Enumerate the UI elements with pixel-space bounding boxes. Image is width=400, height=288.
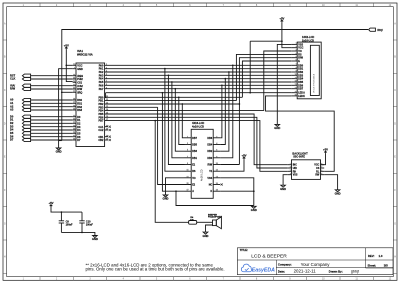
wire LCD VSS to ground bbox=[277, 44, 291, 124]
svg-text:2: 2 bbox=[216, 136, 217, 138]
svg-text:IRQ/: IRQ/ bbox=[377, 28, 383, 32]
svg-text:2021-12-11: 2021-12-11 bbox=[294, 269, 317, 274]
wire PB0 to 4x16 pin3 DB5 bbox=[179, 97, 185, 144]
svg-text:100nF: 100nF bbox=[66, 224, 73, 227]
svg-text:R/W: R/W bbox=[10, 87, 16, 91]
connector LCD2 4X16-LCD body bbox=[191, 129, 213, 198]
svg-text:Sheet:: Sheet: bbox=[368, 264, 377, 268]
svg-text:VSS: VSS bbox=[207, 177, 212, 180]
svg-text:CB2: CB2 bbox=[98, 139, 104, 142]
wire net PB6 to backlight U/D bbox=[105, 117, 288, 168]
wire net PB1 row bbox=[105, 100, 237, 102]
IC U2 BACKLIGHT body bbox=[292, 160, 321, 180]
wire 4x16 pin13 VO to ground bbox=[166, 178, 185, 195]
svg-text:H: H bbox=[4, 256, 6, 259]
svg-text:PA7: PA7 bbox=[99, 88, 104, 91]
svg-text:NC: NC bbox=[209, 184, 213, 187]
wire net D4 to VIA bbox=[31, 129, 73, 131]
wire LCD E staircase to PB0 bbox=[242, 61, 291, 97]
svg-text:jjbbjt: jjbbjt bbox=[350, 269, 360, 274]
svg-text:W65C22 VIA: W65C22 VIA bbox=[77, 52, 93, 56]
svg-text:+5V: +5V bbox=[323, 148, 328, 152]
junction VSS K bbox=[253, 190, 255, 192]
connector LCD2 pin labels and numbers bbox=[186, 136, 218, 193]
svg-text:22: 22 bbox=[73, 88, 75, 90]
IC VIA1 W65C22 VIA body bbox=[76, 63, 105, 147]
wire net PA1 row bbox=[105, 68, 292, 70]
IC U2 pin stubs bbox=[288, 165, 324, 175]
wire PA7 to 4x16 pin5 DB3 bbox=[175, 89, 184, 152]
wire net A2 to VIA bbox=[31, 106, 73, 108]
svg-text:15: 15 bbox=[186, 183, 188, 185]
title block outline bbox=[237, 248, 393, 275]
svg-text:7: 7 bbox=[321, 167, 322, 169]
connector LCD2 pin16 NC no-connect cross bbox=[221, 183, 223, 185]
svg-text:D5: D5 bbox=[10, 131, 14, 135]
svg-text:17: 17 bbox=[186, 190, 188, 192]
svg-text:D: D bbox=[4, 122, 6, 125]
svg-text:GND: GND bbox=[56, 150, 62, 154]
svg-text:DB5: DB5 bbox=[192, 144, 197, 147]
svg-text:8: 8 bbox=[296, 67, 297, 69]
svg-text:7: 7 bbox=[187, 156, 188, 158]
svg-text:1: 1 bbox=[187, 136, 188, 138]
junction PA0 tap bbox=[232, 64, 234, 66]
svg-text:DB1: DB1 bbox=[192, 157, 197, 160]
svg-text:14: 14 bbox=[295, 86, 297, 89]
junction PA2 tap bbox=[228, 71, 230, 73]
ground below LCD VSS bbox=[274, 124, 280, 130]
wire 4x16 pin2 DB6 to PA6 bbox=[220, 85, 222, 138]
svg-text:100nF: 100nF bbox=[86, 224, 93, 227]
EasyEDA logo cloud bbox=[241, 264, 251, 272]
svg-text:A1: A1 bbox=[10, 101, 14, 105]
wire 4x16 pin6 DB2 to PA2 bbox=[220, 72, 229, 151]
wire net PA2 row bbox=[105, 71, 292, 73]
svg-text:36: 36 bbox=[73, 105, 75, 107]
svg-text:12: 12 bbox=[216, 170, 218, 172]
svg-text:Date:: Date: bbox=[278, 269, 285, 273]
svg-text:2x16-LCD: 2x16-LCD bbox=[302, 38, 314, 42]
wire backlight VSS to ground bbox=[283, 175, 288, 185]
svg-text:10: 10 bbox=[295, 74, 297, 76]
wire LCD RS staircase to PB1 bbox=[236, 54, 291, 100]
net port D6 bbox=[10, 134, 31, 138]
wire net PB3 row bbox=[105, 106, 158, 108]
svg-text:13: 13 bbox=[295, 84, 297, 86]
svg-text:CA2: CA2 bbox=[98, 129, 104, 132]
svg-text:G: G bbox=[4, 222, 6, 225]
net port D0 bbox=[10, 114, 31, 118]
svg-text:GND: GND bbox=[203, 234, 209, 238]
svg-text:GND: GND bbox=[280, 187, 286, 191]
junction PA3 tap bbox=[168, 74, 170, 76]
note text about LCD options bbox=[86, 262, 225, 271]
svg-text:10: 10 bbox=[216, 163, 218, 165]
junction A run bbox=[175, 190, 177, 192]
junction +5V LCD bbox=[281, 40, 283, 42]
wire C10 bottom lead bbox=[81, 223, 83, 232]
wire net PB5 to backlight INC bbox=[105, 114, 288, 165]
svg-text:6: 6 bbox=[216, 150, 217, 152]
wire net LEDA row bbox=[106, 92, 292, 94]
IC VIA1 right pin labels bbox=[98, 64, 109, 142]
svg-text:15: 15 bbox=[295, 91, 297, 93]
wire R4 to beeper bbox=[197, 221, 213, 223]
svg-text:9: 9 bbox=[187, 163, 188, 165]
svg-text:+5V: +5V bbox=[279, 16, 284, 20]
svg-text:LCD & BEEPER: LCD & BEEPER bbox=[251, 253, 287, 259]
+5V supply at caps bbox=[48, 201, 53, 207]
svg-text:5: 5 bbox=[296, 56, 297, 58]
svg-text:G: G bbox=[394, 222, 396, 225]
wire +5V to VIA CS1 bbox=[66, 49, 72, 81]
net port CLK bbox=[10, 77, 31, 81]
svg-text:PB7: PB7 bbox=[99, 120, 104, 123]
svg-text:3/5: 3/5 bbox=[384, 264, 388, 268]
capacitor C9 plates bbox=[59, 221, 64, 223]
connector LCD1 pin stubs bbox=[291, 44, 297, 96]
wire 4x16 pin4 DB4 to PA4 bbox=[220, 79, 225, 145]
svg-text:R/W: R/W bbox=[208, 164, 213, 167]
svg-text:DB6: DB6 bbox=[207, 137, 212, 140]
svg-text:5: 5 bbox=[187, 150, 188, 152]
svg-text:1: 1 bbox=[74, 67, 75, 69]
wire net PB0 row bbox=[105, 96, 243, 98]
svg-text:11: 11 bbox=[295, 77, 297, 79]
junction C10 bottom bbox=[81, 232, 83, 234]
junction PA5 tap bbox=[171, 81, 173, 83]
svg-text:35: 35 bbox=[73, 109, 75, 111]
wire PB7 to beeper resistor bbox=[155, 121, 188, 223]
wire net D0 to VIA bbox=[31, 116, 73, 118]
svg-text:TITLE:: TITLE: bbox=[240, 248, 248, 252]
svg-text:A3: A3 bbox=[10, 108, 14, 112]
svg-text:4x16-LCD: 4x16-LCD bbox=[192, 124, 204, 128]
svg-text:7: 7 bbox=[296, 64, 297, 66]
svg-text:LEDK: LEDK bbox=[298, 95, 305, 98]
svg-text:32: 32 bbox=[73, 119, 75, 121]
wire +5V riser to LEDA bbox=[249, 41, 251, 92]
ground below beeper bbox=[203, 232, 209, 238]
wire +5V to backlight VCC bbox=[321, 153, 326, 164]
wire cap ground rail bbox=[61, 232, 95, 235]
title block dividers bbox=[237, 248, 393, 275]
svg-text:GND: GND bbox=[335, 192, 341, 196]
junction LEDA PB0 bbox=[105, 96, 107, 98]
svg-text:13: 13 bbox=[186, 176, 188, 178]
svg-text:9: 9 bbox=[296, 71, 297, 73]
svg-text:4: 4 bbox=[290, 172, 291, 175]
svg-text:D7: D7 bbox=[10, 138, 14, 142]
svg-text:16: 16 bbox=[295, 95, 297, 97]
wire LCD VO to PB4 net bbox=[264, 51, 291, 111]
wire PB2 to 4x16 pin1 DB7 bbox=[182, 104, 184, 138]
svg-text:6: 6 bbox=[296, 60, 297, 62]
wire net A1 to VIA bbox=[31, 102, 73, 104]
wire +5V to VIA VCC bbox=[66, 64, 72, 66]
junction C9 top bbox=[61, 211, 63, 213]
svg-text:11: 11 bbox=[187, 170, 189, 172]
wire 4x16 pin10 R/W bbox=[220, 164, 239, 166]
wire IRQ top rail and left drop bbox=[62, 30, 368, 141]
svg-text:H: H bbox=[394, 256, 396, 259]
wire net PA4 row bbox=[105, 78, 292, 80]
svg-text:US 5x8 STN MODULE: US 5x8 STN MODULE bbox=[314, 73, 316, 93]
junction PA7 tap bbox=[174, 88, 176, 90]
capacitor C10 plates bbox=[79, 221, 84, 223]
wire net R/W to VIA bbox=[31, 88, 73, 90]
wire net PB7 to backlight RH bbox=[105, 121, 288, 172]
ground below backlight RW bbox=[335, 190, 341, 196]
wire net D1 to VIA bbox=[31, 119, 73, 121]
svg-text:27: 27 bbox=[73, 135, 75, 137]
svg-text:4x16 LCD: 4x16 LCD bbox=[200, 169, 204, 181]
wire A ground run bbox=[176, 191, 254, 205]
junction PA4 tap bbox=[224, 78, 226, 80]
wire net A3 to VIA bbox=[31, 109, 73, 111]
wire PA1 to 4x16 pin11 RS bbox=[165, 69, 185, 172]
wire net LEDK loop to backlight RL bbox=[266, 96, 335, 171]
net port VIA/ bbox=[10, 83, 31, 87]
net port D1 bbox=[10, 118, 31, 122]
svg-text:pins. Only one can be used at: pins. Only one can be used at a time but… bbox=[86, 266, 225, 271]
svg-text:EasyEDA: EasyEDA bbox=[252, 268, 275, 274]
wire C10 top lead bbox=[81, 212, 83, 221]
net port IRQ/ top right bbox=[369, 28, 383, 32]
svg-text:6: 6 bbox=[321, 170, 322, 172]
svg-text:DB3: DB3 bbox=[192, 150, 197, 153]
ground below caps bbox=[92, 236, 98, 242]
svg-text:29: 29 bbox=[73, 129, 75, 131]
net port A3 bbox=[10, 108, 31, 112]
svg-text:16: 16 bbox=[216, 183, 218, 185]
svg-text:SSC-S6PZ: SSC-S6PZ bbox=[293, 156, 305, 159]
connector LCD1 16X2-LCD body bbox=[297, 42, 321, 99]
wire backlight RW to ground bbox=[324, 175, 337, 190]
wire net PA6 row bbox=[105, 84, 292, 86]
connector LCD1 screen rectangle bbox=[310, 45, 319, 95]
wire net D2 to VIA bbox=[31, 122, 73, 124]
svg-text:2: 2 bbox=[296, 46, 297, 48]
svg-text:5: 5 bbox=[321, 173, 322, 175]
svg-text:2: 2 bbox=[290, 167, 291, 169]
svg-text:Drawn By:: Drawn By: bbox=[329, 269, 343, 273]
IC VIA1 left pin stubs bbox=[73, 65, 76, 140]
svg-text:GND: GND bbox=[251, 208, 257, 212]
wire +5V cap rail bbox=[51, 207, 82, 212]
wire C9 bottom lead bbox=[60, 223, 62, 232]
wire net PB4 row bbox=[105, 110, 264, 112]
svg-text:GND: GND bbox=[163, 197, 169, 201]
wire LEDA drop to 4x16 pin17 A bbox=[162, 93, 184, 192]
IC VIA1 CA1 CA2 CB1 CB2 no-connect pins bbox=[105, 126, 111, 142]
svg-text:1: 1 bbox=[296, 43, 297, 45]
wire 4x16 pin8 DB0 to PA0 bbox=[220, 65, 233, 158]
wire C9 top lead bbox=[60, 212, 62, 221]
net port D2 bbox=[10, 121, 31, 125]
svg-text:Company:: Company: bbox=[278, 263, 292, 267]
svg-text:3: 3 bbox=[296, 50, 297, 52]
wire LCD R/W staircase riser bbox=[239, 58, 291, 165]
svg-text:1: 1 bbox=[290, 163, 291, 165]
svg-text:33: 33 bbox=[73, 115, 75, 117]
resistor R4 body bbox=[189, 221, 197, 225]
wire +5V branch row bbox=[250, 40, 282, 42]
junction PA6 tap bbox=[221, 84, 223, 86]
svg-text:RS: RS bbox=[192, 170, 196, 173]
svg-text:GND: GND bbox=[77, 68, 83, 71]
junction PB2 tap bbox=[181, 103, 183, 105]
svg-text:+5V: +5V bbox=[64, 43, 69, 47]
net port D7 bbox=[10, 138, 31, 142]
junction +5V VCC bbox=[65, 64, 67, 66]
svg-text:Your Company: Your Company bbox=[301, 262, 331, 267]
wire net VIA/ to VIA bbox=[31, 85, 73, 87]
svg-text:VO: VO bbox=[192, 177, 196, 180]
junction PB7 beeper tap bbox=[154, 120, 156, 122]
svg-text:12: 12 bbox=[295, 81, 297, 83]
svg-text:C: C bbox=[394, 89, 396, 92]
svg-text:DB4: DB4 bbox=[207, 144, 212, 147]
wire net PA5 row bbox=[105, 81, 292, 83]
svg-text:37: 37 bbox=[73, 102, 75, 104]
net port A2 bbox=[10, 104, 31, 108]
wire net D6 to VIA bbox=[31, 136, 73, 138]
ground below backlight VSS bbox=[280, 185, 286, 191]
net port D5 bbox=[10, 131, 31, 135]
+5V supply at backlight bbox=[323, 148, 328, 154]
wire net CLK to VIA bbox=[31, 78, 73, 80]
svg-text:25: 25 bbox=[73, 78, 75, 80]
wire PA3 to 4x16 pin9 E1 bbox=[168, 75, 184, 164]
svg-text:C: C bbox=[4, 89, 6, 92]
wire GND bridge at bottom of drops bbox=[59, 140, 62, 142]
svg-text:1.0: 1.0 bbox=[379, 254, 383, 258]
beeper LS1 PS1240P02BT symbol bbox=[213, 217, 222, 229]
wire net PA0 row bbox=[105, 64, 292, 66]
junction PB2 R/W riser bbox=[239, 103, 241, 105]
net port D4 bbox=[10, 128, 31, 132]
wire net D7 to VIA bbox=[31, 139, 73, 141]
junction LEDA drop bbox=[162, 92, 164, 94]
junction PA1 tap bbox=[164, 68, 166, 70]
wire 4x16 pin12 V1 to +5V bbox=[220, 159, 244, 171]
wire net D5 to VIA bbox=[31, 132, 73, 134]
svg-text:K: K bbox=[210, 190, 212, 193]
svg-text:28: 28 bbox=[73, 132, 75, 134]
svg-text:31: 31 bbox=[73, 122, 75, 124]
wire net PB2 row bbox=[105, 103, 240, 105]
wire 4x16 pin18 K to ground run bbox=[220, 191, 254, 205]
svg-text:VSS: VSS bbox=[293, 174, 298, 177]
svg-text:38: 38 bbox=[73, 99, 75, 101]
svg-text:CLK: CLK bbox=[10, 77, 15, 81]
junction PB0 tap E1 bbox=[178, 96, 180, 98]
+5V supply above LCD bbox=[279, 16, 284, 22]
svg-text:21: 21 bbox=[73, 91, 75, 93]
net port R/W bbox=[10, 87, 31, 91]
+5V supply at 4x16 V1 bbox=[241, 153, 246, 159]
svg-text:4: 4 bbox=[296, 52, 297, 55]
svg-text:3: 3 bbox=[290, 170, 291, 172]
wire net PA7 row bbox=[105, 88, 292, 90]
svg-text:D: D bbox=[394, 122, 396, 125]
IC U2 pin labels bbox=[290, 163, 322, 176]
wire +5V to LCD VCC bbox=[282, 22, 291, 47]
wire VIA GND pin down bbox=[59, 69, 73, 148]
svg-text:+5V: +5V bbox=[48, 201, 53, 205]
wire PB3 to 4x16 pin15 E2 bbox=[158, 107, 192, 184]
wire net PA3 row bbox=[105, 74, 292, 76]
svg-text:PS1240P02BT: PS1240P02BT bbox=[208, 216, 223, 219]
svg-text:D2: D2 bbox=[10, 121, 14, 125]
junction at /IRQ bbox=[61, 91, 63, 93]
svg-text:GND: GND bbox=[274, 126, 280, 130]
wire net RST to VIA bbox=[31, 75, 73, 77]
ground below VIA bbox=[56, 148, 62, 154]
svg-text:DB7: DB7 bbox=[298, 88, 304, 91]
svg-text:3: 3 bbox=[187, 143, 188, 145]
svg-text:DB0: DB0 bbox=[207, 157, 212, 160]
net port A1 bbox=[10, 101, 31, 105]
svg-text:RS3: RS3 bbox=[77, 109, 82, 112]
svg-text:/IRQ: /IRQ bbox=[77, 91, 82, 94]
connector LCD2 pin stubs bbox=[185, 138, 221, 191]
wire beeper to ground bbox=[206, 225, 213, 232]
wire net D3 to VIA bbox=[31, 126, 73, 128]
connector LCD1 pin labels and numbers bbox=[295, 43, 305, 98]
net port D3 bbox=[10, 124, 31, 128]
wire 4x16 pin14 VSS down to K net bbox=[220, 178, 254, 191]
svg-text:A: A bbox=[192, 190, 194, 193]
net port A0 bbox=[10, 98, 31, 102]
ground below 4x16 K bbox=[251, 206, 257, 212]
IC VIA1 left pin labels bbox=[73, 64, 83, 142]
wire to VIA /IRQ pin bbox=[62, 91, 73, 93]
net port RST bbox=[10, 73, 31, 77]
svg-text:20: 20 bbox=[73, 64, 75, 66]
wire PA5 to 4x16 pin7 DB1 bbox=[172, 82, 185, 158]
wire net A0 to VIA bbox=[31, 99, 73, 101]
svg-text:REV:: REV: bbox=[368, 254, 375, 258]
svg-text:+5V: +5V bbox=[241, 153, 246, 157]
svg-text:DB2: DB2 bbox=[207, 150, 212, 153]
svg-text:DB7: DB7 bbox=[192, 137, 197, 140]
+5V supply at VIA1 bbox=[64, 43, 69, 49]
svg-text:23: 23 bbox=[73, 84, 75, 86]
svg-text:26: 26 bbox=[73, 139, 75, 141]
wire LEDA elbow to PB0 bbox=[105, 93, 107, 98]
junction LEDA +5V bbox=[249, 92, 251, 94]
svg-text:30: 30 bbox=[73, 125, 75, 127]
ground below 4x16 VO bbox=[163, 195, 169, 201]
svg-text:18: 18 bbox=[216, 190, 218, 192]
svg-text:GND: GND bbox=[92, 237, 98, 241]
svg-text:8: 8 bbox=[216, 156, 217, 158]
